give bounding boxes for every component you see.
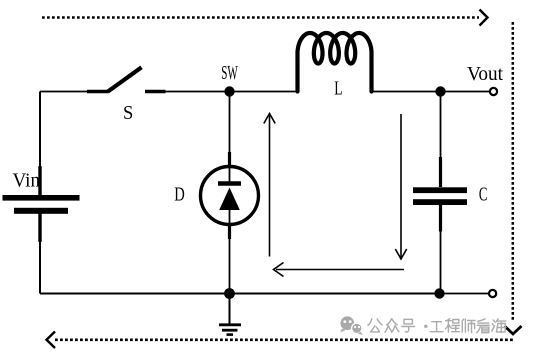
dashed current-path arrow: top (left to right) [42, 10, 488, 26]
svg-text:D: D [174, 185, 185, 206]
battery lead stub below [38, 213, 41, 242]
node ground junction [224, 288, 235, 299]
watermark logo chat bubbles [340, 316, 363, 335]
switch S left contact [87, 90, 108, 93]
wire: diode anode to bottom rail [229, 239, 231, 294]
svg-text:L: L [334, 79, 342, 100]
diode anode triangle (points up) [219, 188, 240, 211]
wire: bottom rail [40, 293, 441, 295]
freewheel loop arrow: down (right leg) [395, 114, 406, 259]
wire: output node down to capacitor [440, 96, 442, 157]
capacitor C top plate [413, 187, 467, 193]
node output junction [435, 86, 445, 96]
battery lead stub above [38, 166, 41, 195]
diode internal leads [229, 167, 231, 224]
ground bar 3 [227, 333, 234, 336]
capacitor C bottom plate [413, 199, 467, 205]
diode cathode lead stub [228, 152, 231, 167]
freewheel loop arrow: left (bottom leg) [274, 263, 405, 277]
dashed current-path arrow: right side (downward) [505, 22, 522, 334]
wire: SW node down to diode cathode [229, 96, 231, 167]
wire: top rail Vin to switch [40, 91, 88, 93]
switch S right contact [145, 90, 166, 93]
diode cathode bar [218, 181, 241, 185]
terminal Vout open circle [490, 88, 497, 95]
battery Vin negative plate [14, 208, 68, 214]
node SW junction [224, 86, 234, 96]
wire: inductor to Vout terminal [372, 91, 490, 93]
svg-text:S: S [123, 103, 133, 124]
capacitor bottom lead stub [439, 205, 442, 232]
wire: capacitor to bottom rail [440, 232, 442, 294]
battery Vin positive plate [3, 195, 80, 201]
ground bar 2 [222, 329, 238, 332]
node bottom-right junction [434, 288, 444, 298]
svg-text:Vout: Vout [467, 64, 504, 85]
watermark text 公众号 · 工程师看海 (vector strokes) [368, 319, 506, 333]
switch S lever (open) [108, 67, 142, 92]
diode D envelope circle [201, 167, 259, 225]
wire: to return terminal [440, 293, 489, 295]
ground stem [229, 294, 231, 324]
inductor L winding [298, 33, 372, 92]
separator dot [424, 325, 427, 328]
wire: switch to inductor through SW node [165, 91, 298, 93]
dashed current-path arrow: bottom (right to left) [47, 332, 513, 349]
wire: left rail top (Vin+ to switch) [39, 92, 41, 196]
terminal return open circle [489, 290, 496, 297]
capacitor top lead stub [439, 157, 442, 187]
diode anode lead stub [228, 224, 231, 239]
svg-text:SW: SW [221, 63, 238, 84]
freewheel loop arrow: up (left leg) [264, 114, 275, 257]
svg-text:C: C [479, 185, 488, 206]
svg-text:Vin: Vin [13, 171, 41, 192]
wire: left rail bottom [39, 211, 41, 294]
ground bar 1 [219, 323, 241, 326]
